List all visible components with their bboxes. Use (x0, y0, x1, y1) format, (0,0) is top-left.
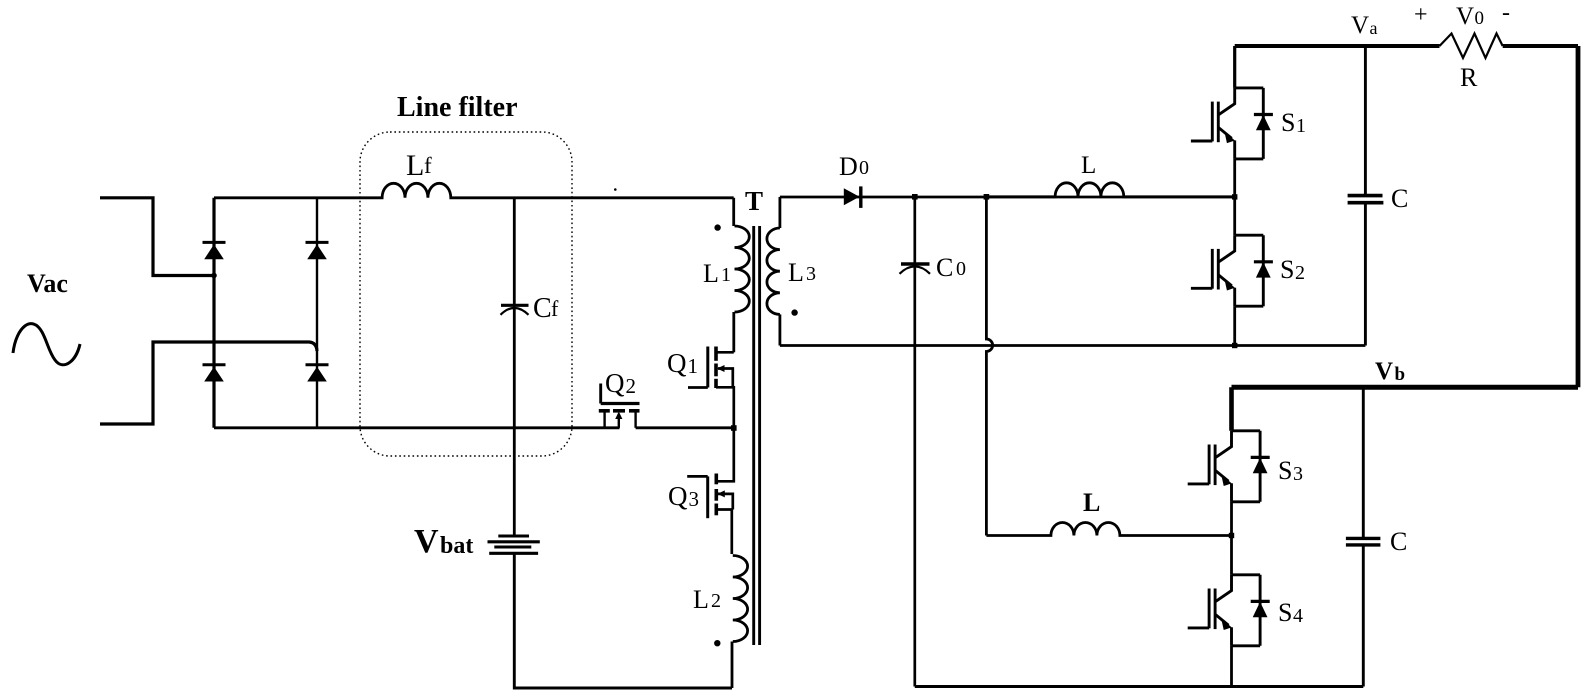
svg-text:Line filter: Line filter (397, 92, 518, 123)
svg-text:a: a (1370, 18, 1378, 38)
svg-text:L: L (788, 258, 804, 287)
svg-text:L: L (1083, 488, 1100, 517)
svg-text:L: L (1081, 152, 1096, 179)
svg-text:S: S (1281, 108, 1295, 137)
svg-text:L: L (406, 149, 424, 182)
svg-text:f: f (424, 153, 432, 178)
svg-text:2: 2 (1295, 262, 1305, 284)
svg-text:C: C (1390, 527, 1407, 556)
svg-text:S: S (1280, 255, 1294, 284)
svg-text:Q: Q (667, 348, 687, 378)
svg-text:L: L (703, 259, 719, 288)
svg-text:Q: Q (605, 368, 625, 398)
svg-text:D: D (839, 152, 858, 181)
svg-text:1: 1 (688, 354, 699, 378)
svg-text:3: 3 (806, 263, 816, 285)
svg-text:2: 2 (711, 590, 721, 612)
svg-text:+: + (1414, 2, 1428, 28)
svg-text:C: C (1391, 184, 1408, 213)
svg-text:bat: bat (440, 533, 473, 559)
svg-text:0: 0 (859, 157, 869, 179)
svg-text:L: L (693, 585, 709, 614)
svg-text:1: 1 (721, 264, 731, 286)
svg-text:3: 3 (689, 487, 700, 511)
svg-text:V: V (414, 523, 439, 560)
svg-text:Q: Q (668, 481, 688, 511)
svg-text:S: S (1278, 456, 1292, 485)
svg-text:f: f (551, 296, 559, 321)
svg-text:b: b (1395, 364, 1406, 385)
svg-text:Vac: Vac (27, 269, 68, 298)
svg-text:R: R (1460, 63, 1478, 92)
svg-text:V: V (1456, 3, 1474, 30)
svg-text:0: 0 (1475, 8, 1485, 29)
svg-text:0: 0 (956, 258, 966, 280)
svg-text:C: C (936, 253, 953, 282)
svg-text:T: T (745, 186, 763, 216)
svg-text:C: C (533, 293, 552, 324)
svg-text:2: 2 (626, 374, 637, 398)
svg-text:1: 1 (1296, 115, 1306, 137)
svg-text:V: V (1375, 358, 1393, 385)
svg-text:3: 3 (1293, 463, 1303, 485)
svg-text:4: 4 (1293, 605, 1303, 627)
svg-text:S: S (1278, 598, 1292, 627)
svg-text:V: V (1351, 12, 1369, 39)
svg-text:-: - (1502, 0, 1510, 26)
